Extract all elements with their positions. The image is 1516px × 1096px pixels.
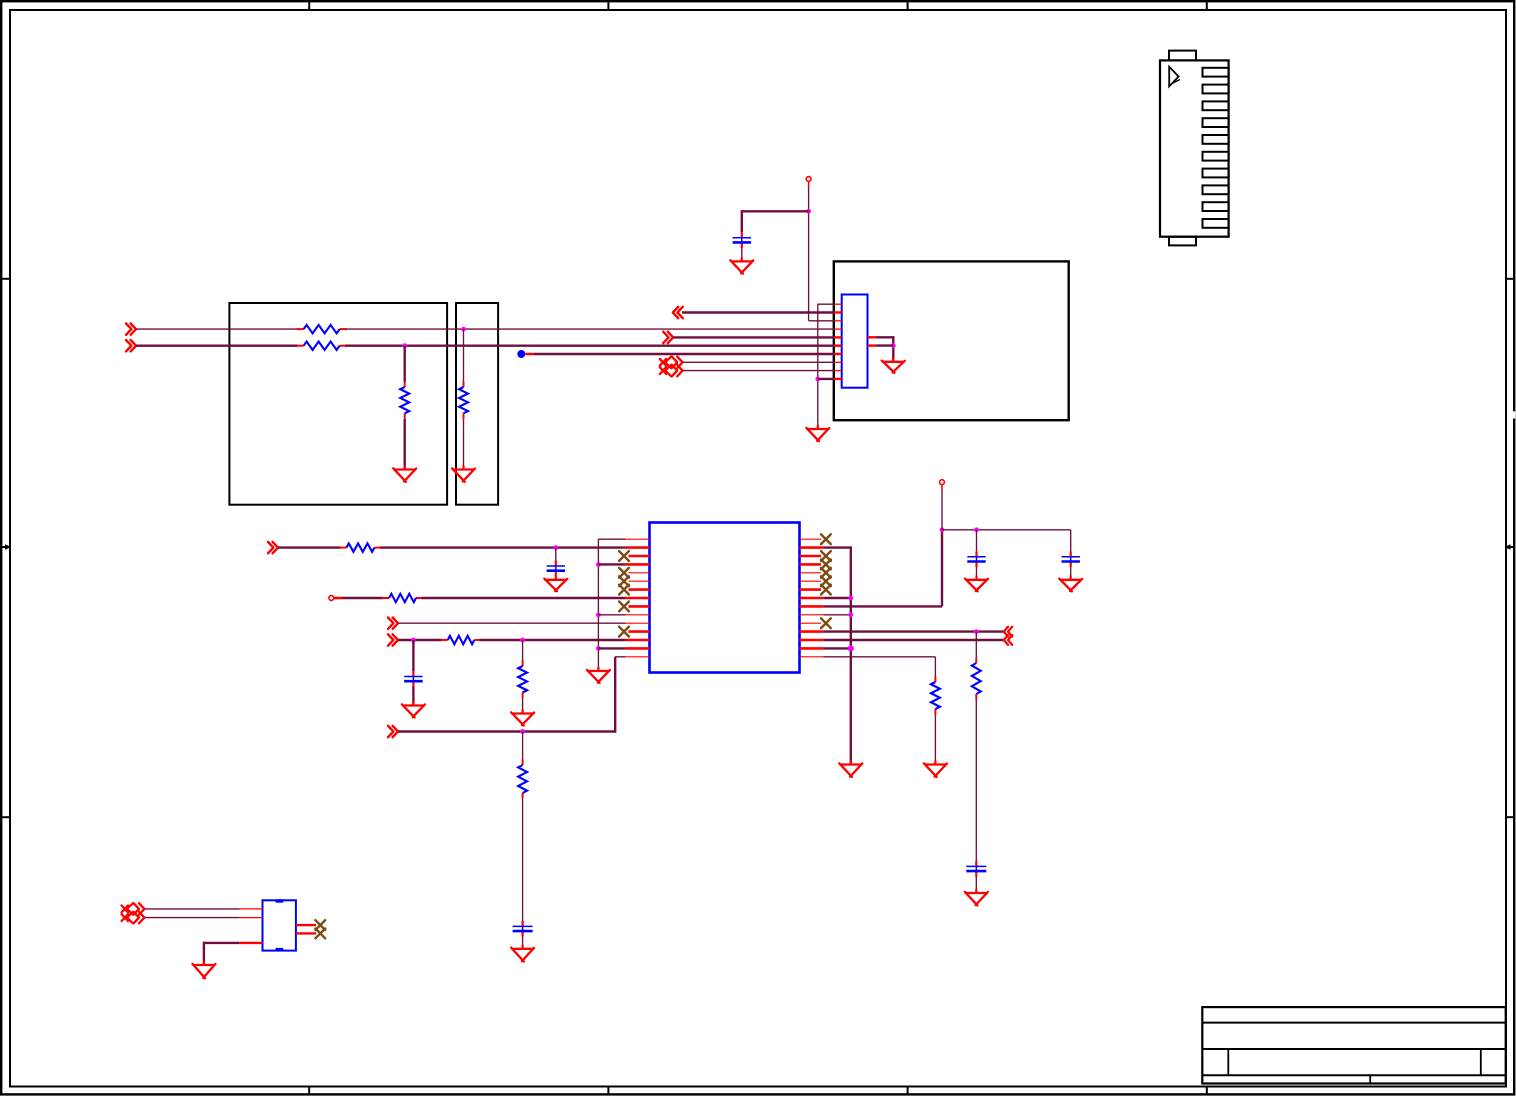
ground C1 <box>730 257 753 274</box>
ground C4 <box>511 945 534 962</box>
ground R11 <box>393 465 416 482</box>
wire net H to U2 pin2 <box>682 311 834 313</box>
pin stub net B <box>334 597 342 600</box>
junction U1-left GND pin10 <box>596 612 601 617</box>
wire junction to U1 pin10 <box>598 614 625 616</box>
wire pin9 riser <box>941 530 943 607</box>
wire R6 to ground <box>522 698 524 714</box>
wire U1 pin15 right <box>823 656 935 658</box>
off-page connector (right) net A <box>268 542 278 553</box>
GND rail vertical left of U1 <box>597 539 599 671</box>
pin stub net L <box>525 353 534 355</box>
wire junction to R7 <box>522 732 524 760</box>
wire PWR2 to U2 pin3 <box>809 320 834 322</box>
off-page connector (left) net F <box>1004 627 1012 637</box>
off-page connector (right) net E <box>388 726 398 737</box>
wire U2 right bracket <box>892 336 894 362</box>
off-page bidir connector net Q <box>122 912 145 923</box>
junction C1 tap <box>806 209 811 214</box>
wire U3 ground horizontal <box>204 942 240 944</box>
wire C7 to ground <box>975 876 977 893</box>
wire net E horizontal <box>398 730 615 732</box>
wire junction to R10 <box>463 329 465 381</box>
ground C7 <box>965 889 988 906</box>
unconnected pin circle PWR2 <box>806 177 811 182</box>
wire shield rail to U2 pin10 <box>818 378 834 380</box>
resistor R6 <box>518 661 527 699</box>
wire net N to U2 pin9 <box>683 370 834 372</box>
junction cap C5 tap <box>974 527 979 532</box>
title block <box>1202 1007 1505 1083</box>
wire R9 to ground <box>934 715 936 765</box>
wire U2 right pin1 <box>876 336 894 338</box>
wire junction to R6 <box>522 640 524 661</box>
wire junction to C2 <box>555 548 557 561</box>
connector U3 right pin stubs <box>296 925 316 933</box>
junction net D res tap <box>520 638 525 643</box>
wire U2 pin1 to shield rail <box>818 303 834 305</box>
ground GND rail U1 left <box>587 667 610 683</box>
IC U1 body <box>650 523 800 673</box>
wire junction to C5 <box>976 530 978 552</box>
wire R7 to C4 <box>522 799 524 922</box>
wire net D segment1 <box>398 639 442 641</box>
off-page bidir connector net N <box>660 365 683 376</box>
unconnected pin circle net B <box>329 596 334 601</box>
junction net E res tap <box>520 729 525 734</box>
pin stub PWR2 <box>808 182 810 187</box>
junction net F res tap <box>974 629 979 634</box>
connector U2 body <box>842 295 868 388</box>
junction U1-right rail pin10 <box>848 612 853 617</box>
wire net K segment1 <box>136 345 298 347</box>
wire junction to U1 pin4 <box>598 563 625 565</box>
off-page bidir connector net P <box>122 903 145 914</box>
capacitor C5 <box>967 551 985 567</box>
wire C1 vertical <box>741 210 743 232</box>
junction net I res tap <box>461 327 466 332</box>
shield rail vertical <box>817 304 819 429</box>
connector U2 right pin stubs <box>868 337 876 345</box>
junction net D cap tap <box>411 638 416 643</box>
wire power node horizontal <box>942 529 1071 531</box>
connector U3 body <box>263 899 296 951</box>
wire PWR circle to junction <box>941 490 943 530</box>
wire net J to U2 pin5 <box>673 336 834 338</box>
wire U1 pin12 right <box>823 630 1004 632</box>
wire U3 ground vertical <box>203 942 205 965</box>
off-page connector (left) net G <box>1004 635 1012 645</box>
junction U1-right rail pin8 <box>848 596 853 601</box>
wire U1 pin10 to rail <box>823 614 851 616</box>
wire pin15 down <box>934 657 936 677</box>
wire R11 to ground <box>404 419 406 470</box>
block box B1 <box>229 303 447 505</box>
no-connect X U3 pin5 <box>315 929 325 939</box>
wire R3 to U1 pin2 <box>380 546 626 548</box>
off-page connector (left) net H <box>673 307 683 318</box>
resistor R4 <box>382 594 423 602</box>
wire C6 to ground <box>1070 567 1072 580</box>
no-connect X U3 pin4 <box>315 920 325 930</box>
resistor R9 <box>931 677 940 715</box>
resistor R5 <box>441 636 482 644</box>
resistor R11 <box>400 382 409 419</box>
junction U1-right rail pin14 <box>848 645 854 651</box>
block box B2 <box>456 303 498 505</box>
connector U2 left pin stubs <box>834 304 842 379</box>
wire net M to U2 pin8 <box>683 361 834 363</box>
junction U1-left GND pin14 <box>596 646 601 651</box>
ground R10 <box>452 465 475 482</box>
ground C6 <box>1059 576 1082 592</box>
connector J1 body <box>1160 51 1229 246</box>
ground R9 <box>924 760 947 777</box>
outer border print gap <box>1512 411 1516 418</box>
capacitor C1 <box>733 232 751 248</box>
wire net P to U3 pin1 <box>144 908 239 910</box>
wire junction to U1 pin14 <box>598 647 625 649</box>
junction net A cap tap <box>553 545 558 550</box>
wire net Q to U3 pin2 <box>144 917 239 919</box>
wire PWR2 down <box>808 187 810 321</box>
resistor R8 <box>972 658 981 700</box>
resistor R3 <box>339 543 381 551</box>
capacitor C2 <box>547 561 565 577</box>
ground U2 right <box>882 358 905 373</box>
wire R8 to C7 <box>975 700 977 862</box>
ground U3 <box>192 961 215 979</box>
ground shield rail <box>806 425 829 441</box>
wire net E vertical <box>614 657 616 733</box>
wire net L to U2 pin7 <box>534 353 834 355</box>
wire R2 to U2 pin6 <box>345 345 834 347</box>
junction net K res tap <box>402 343 407 348</box>
net stub terminal dot <box>517 350 525 358</box>
connector J1 pin-1 triangle marker <box>1169 67 1180 87</box>
off-page connector (right) net C <box>388 618 398 629</box>
wire power node corner down <box>1070 530 1072 552</box>
connector J1 pin notches <box>1203 68 1229 228</box>
GND rail vertical right of U1 <box>850 546 852 764</box>
ground R6 <box>511 709 534 725</box>
resistor R2 <box>297 342 347 350</box>
wire net I segment1 <box>136 328 298 330</box>
junction shield pin10 <box>815 377 820 382</box>
wire U1 pin9 right <box>823 605 942 607</box>
ground C3 <box>402 701 425 717</box>
wire U1 pin13 right <box>823 639 1004 641</box>
off-page connector (right) net I <box>126 323 136 334</box>
off-page connector (right) net J <box>663 332 673 343</box>
wire C3 to ground <box>412 686 414 705</box>
block box B3 <box>834 261 1069 420</box>
ground C5 <box>965 576 988 592</box>
off-page connector (right) net K <box>126 340 136 351</box>
wire R10 to ground <box>463 419 465 470</box>
resistor R7 <box>518 760 527 799</box>
wire junction to R11 <box>404 346 406 382</box>
frame center arrow left <box>2 544 12 550</box>
off-page connector (right) net D <box>388 634 398 645</box>
ground GND rail U1 right <box>839 760 862 777</box>
wire U1 pin2 to GND rail right <box>823 546 851 548</box>
wire junction to C1 horizontal <box>742 210 809 212</box>
capacitor C7 <box>966 861 986 877</box>
off-page bidir connector net M <box>660 357 683 368</box>
frame center arrow right <box>1505 544 1515 550</box>
wire C5 to ground <box>976 567 978 580</box>
wire connector to R3 <box>278 546 341 548</box>
wire C4 to ground <box>522 936 524 949</box>
unconnected pin circle PWR <box>940 480 945 485</box>
wire R5 to U1 pin13 <box>480 639 626 641</box>
wire R1 to U2 pin4 <box>345 328 834 330</box>
capacitor C3 <box>404 671 422 687</box>
capacitor C4 <box>513 921 533 937</box>
no-connect X marks U1 right <box>821 534 831 628</box>
junction power node <box>940 527 945 532</box>
resistor R1 <box>297 325 347 333</box>
ground C2 <box>544 576 567 592</box>
wire net E to U1 pin15 <box>615 656 626 658</box>
wire R4 to U1 pin8 <box>422 597 626 599</box>
resistor R10 <box>459 382 468 419</box>
wire net B to R4 <box>342 597 384 599</box>
wire C2 to ground <box>555 576 557 580</box>
junction U1-left GND pin4 <box>596 562 601 567</box>
wire U1 pin1 to GND rail <box>598 538 625 540</box>
capacitor C6 <box>1062 551 1080 567</box>
wire net C to U1 pin11 <box>398 622 626 624</box>
connector U3 left pin stubs <box>239 909 262 943</box>
no-connect X marks U1 left <box>619 551 629 636</box>
pin stub PWR <box>941 485 943 490</box>
wire C1 to ground <box>741 248 743 262</box>
wire junction to R8 <box>975 632 977 658</box>
junction U2 right pin2 <box>891 343 896 348</box>
wire U1 pin14 to rail <box>823 647 851 649</box>
wire U1 pin8 to rail <box>823 597 851 599</box>
wire U2 right pin2 <box>876 344 894 346</box>
IC U1 right pin stubs <box>800 539 824 657</box>
wire junction to C3 <box>412 640 414 671</box>
IC U1 left pin stubs <box>626 539 650 657</box>
